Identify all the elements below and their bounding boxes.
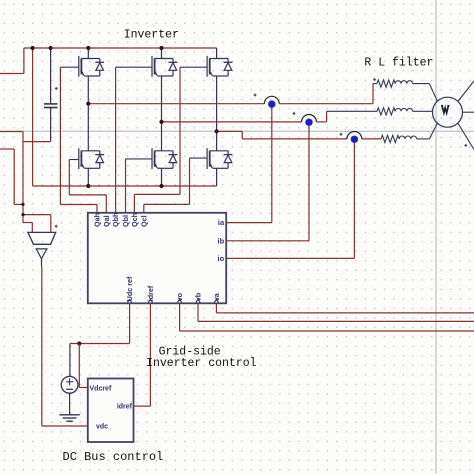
svg-text:R L filter: R L filter [364, 57, 433, 70]
svg-text:Qbh: Qbh [111, 213, 120, 227]
svg-text:Udc ref: Udc ref [125, 276, 134, 301]
svg-text:io: io [218, 254, 225, 263]
svg-text:Inverter control: Inverter control [146, 357, 257, 370]
svg-text:idref: idref [117, 404, 133, 411]
svg-text:Qch: Qch [130, 213, 139, 227]
svg-text:Qah: Qah [93, 213, 102, 227]
svg-text:ia: ia [218, 218, 225, 227]
svg-text:Qcl: Qcl [139, 215, 148, 227]
svg-text:vdc: vdc [96, 424, 108, 431]
svg-text:ib: ib [218, 236, 225, 245]
svg-text:Qbl: Qbl [121, 215, 130, 227]
svg-text:DC Bus control: DC Bus control [63, 450, 164, 464]
svg-text:Inverter: Inverter [124, 29, 179, 42]
svg-text:Vdcref: Vdcref [90, 386, 112, 393]
svg-text:Qal: Qal [102, 215, 111, 227]
